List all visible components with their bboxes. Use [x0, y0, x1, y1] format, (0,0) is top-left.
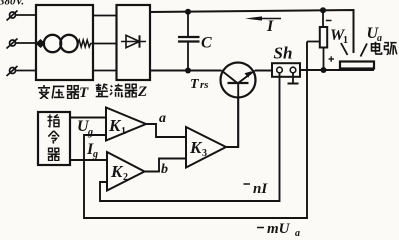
svg-text:g: g	[87, 127, 93, 138]
svg-text:K: K	[189, 138, 203, 157]
svg-text:T: T	[79, 85, 89, 101]
svg-text:Z: Z	[137, 84, 147, 100]
svg-text:a: a	[295, 228, 300, 239]
svg-text:a: a	[159, 111, 166, 126]
svg-text:a: a	[377, 33, 382, 44]
svg-text:380V.: 380V.	[0, 0, 25, 8]
svg-text:mU: mU	[267, 221, 291, 237]
svg-text:1: 1	[343, 35, 348, 46]
svg-text:2: 2	[123, 172, 128, 183]
svg-text:I: I	[266, 18, 274, 35]
svg-text:C: C	[201, 35, 212, 52]
svg-text:g: g	[92, 149, 98, 160]
svg-text:T: T	[190, 77, 200, 92]
svg-text:K: K	[110, 162, 124, 181]
svg-text:nI: nI	[253, 181, 268, 197]
svg-text:Sh: Sh	[274, 44, 293, 63]
svg-text:3: 3	[202, 148, 207, 159]
svg-text:rs: rs	[200, 79, 209, 91]
svg-text:K: K	[108, 116, 122, 135]
svg-text:b: b	[161, 162, 168, 177]
svg-text:1: 1	[121, 126, 126, 137]
